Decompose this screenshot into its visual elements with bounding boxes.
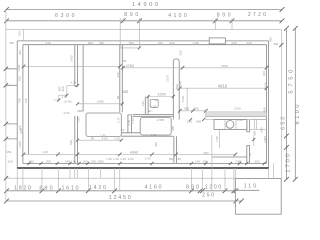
svg-text:230: 230 — [77, 117, 81, 122]
svg-text:1920: 1920 — [14, 185, 31, 191]
svg-text:240: 240 — [179, 81, 183, 86]
svg-text:1105: 1105 — [181, 95, 185, 102]
svg-text:50: 50 — [154, 98, 158, 102]
living vertical dim — [186, 88, 188, 111]
dim 2420 ticks — [76, 102, 79, 105]
door pocket near W1 — [128, 115, 131, 133]
dim line under bed — [78, 139, 122, 141]
top wall outer face — [17, 40, 268, 42]
kitchen dim line — [180, 110, 206, 112]
living dim ticks — [178, 86, 182, 90]
svg-text:1.20: 1.20 — [114, 137, 120, 141]
svg-text:650: 650 — [196, 120, 201, 124]
interior wall W1 — [120, 45, 123, 113]
svg-text:1610: 1610 — [62, 185, 79, 191]
left strip window lines — [6, 69, 17, 139]
svg-text:250: 250 — [202, 193, 214, 199]
svg-text:1.34: 1.34 — [151, 133, 157, 137]
right room dim ticks — [121, 66, 125, 70]
svg-text:1050: 1050 — [158, 93, 166, 97]
bathroom wall horizontal HW2 — [133, 115, 174, 117]
svg-text:300: 300 — [46, 159, 51, 163]
svg-text:150: 150 — [6, 150, 11, 154]
svg-text:30: 30 — [248, 153, 252, 157]
right dim outer ticks — [293, 26, 298, 31]
svg-text:500: 500 — [129, 41, 134, 45]
left wall liner line — [27, 45, 29, 155]
dim 1050 line — [148, 96, 173, 98]
right wall outer face — [268, 41, 270, 168]
interior dim 4940 line — [24, 153, 236, 155]
top wall inner face — [23, 44, 267, 46]
bathtub — [140, 117, 171, 135]
interior dim 4940 ticks — [22, 153, 26, 157]
svg-text:930: 930 — [18, 76, 22, 81]
svg-text:(35): (35) — [91, 159, 96, 163]
right wall inner face — [265, 45, 267, 164]
kitchen extension line — [211, 135, 213, 191]
svg-text:2030: 2030 — [175, 84, 179, 91]
svg-text:1.50: 1.50 — [150, 105, 156, 109]
counter right section — [250, 120, 267, 130]
right dim outer line — [294, 28, 296, 179]
dim row2 stub verticals — [123, 19, 232, 24]
svg-text:1.50: 1.50 — [215, 136, 219, 142]
bottom extensions — [17, 168, 234, 191]
svg-text:885: 885 — [171, 125, 175, 130]
svg-text:1200: 1200 — [205, 185, 222, 191]
kitchen wall segments — [247, 120, 250, 164]
svg-text:890: 890 — [217, 12, 231, 18]
svg-text:635: 635 — [231, 41, 236, 45]
svg-text:360: 360 — [88, 41, 93, 45]
svg-text:1.46: 1.46 — [120, 157, 126, 161]
dim row1 line 14900 — [7, 9, 283, 11]
svg-text:1060: 1060 — [235, 159, 242, 163]
annex rectangle — [235, 179, 281, 215]
svg-text:900: 900 — [253, 131, 257, 136]
bottom dim row1 ticks — [4, 188, 9, 193]
svg-text:780: 780 — [17, 98, 21, 103]
bottom dim row2 ticks — [4, 199, 9, 204]
door line above pocket — [122, 91, 128, 93]
svg-text:500: 500 — [263, 107, 267, 112]
svg-text:500: 500 — [260, 127, 264, 132]
boundary top line — [6, 28, 281, 30]
counter front — [214, 120, 247, 130]
annex stub extension — [235, 163, 273, 178]
svg-text:650: 650 — [169, 157, 174, 161]
boundary right tick + 450 label — [279, 43, 283, 47]
right dim inner line — [285, 28, 287, 179]
bath-kitchen wall lower — [174, 136, 177, 163]
top wall door sill — [120, 47, 139, 49]
svg-text:1.565: 1.565 — [157, 118, 165, 122]
interior wall W2 upper — [75, 45, 78, 86]
wardrobe line right of W2 — [78, 45, 84, 111]
top door extensions — [120, 18, 232, 48]
svg-text:570: 570 — [18, 31, 22, 36]
top strip tick line — [23, 29, 25, 41]
svg-text:650: 650 — [254, 159, 259, 163]
svg-text:635: 635 — [179, 50, 183, 55]
svg-text:1.20: 1.20 — [42, 150, 48, 154]
bottom wall outer face thick — [17, 167, 268, 169]
interior wall W2 lower — [75, 116, 78, 163]
svg-text:950: 950 — [61, 86, 65, 91]
left wall outer face — [16, 41, 18, 168]
washbasin — [150, 99, 158, 107]
svg-text:140: 140 — [65, 159, 70, 163]
kitchen sink circle — [226, 121, 234, 129]
left room dim line — [24, 65, 120, 67]
svg-text:150: 150 — [7, 159, 12, 163]
dim 2420 line — [78, 103, 123, 105]
svg-text:3.00: 3.00 — [45, 41, 51, 45]
bottom dim row2 line — [7, 200, 242, 202]
svg-text:250: 250 — [203, 159, 208, 163]
svg-text:650: 650 — [187, 120, 192, 124]
left wall inner face — [22, 45, 24, 164]
svg-text:1.00: 1.00 — [113, 157, 119, 161]
svg-text:4.05: 4.05 — [70, 81, 76, 85]
bathroom wall vertical — [145, 97, 148, 115]
svg-text:1.70: 1.70 — [116, 117, 120, 123]
svg-text:245: 245 — [116, 72, 120, 77]
stair niche dim steps — [53, 86, 77, 100]
svg-text:1.34: 1.34 — [131, 118, 135, 124]
svg-text:680: 680 — [193, 107, 198, 111]
svg-text:(90): (90) — [99, 41, 104, 45]
svg-text:1380: 1380 — [263, 136, 267, 143]
svg-text:450: 450 — [273, 42, 278, 46]
svg-text:2410: 2410 — [234, 106, 241, 110]
svg-text:8100: 8100 — [295, 104, 300, 125]
svg-text:500: 500 — [69, 140, 73, 145]
svg-text:890: 890 — [186, 185, 199, 191]
svg-text:1060: 1060 — [97, 159, 104, 163]
svg-text:240: 240 — [141, 101, 145, 106]
svg-text:1.35: 1.35 — [106, 157, 112, 161]
bottom wall ticks — [27, 162, 30, 165]
svg-text:1.80: 1.80 — [193, 41, 199, 45]
svg-text:4760: 4760 — [126, 64, 134, 68]
svg-text:4160: 4160 — [145, 185, 162, 191]
svg-text:450: 450 — [9, 41, 14, 45]
svg-text:680: 680 — [184, 107, 189, 111]
svg-text:60: 60 — [178, 157, 182, 161]
dim row2 ticks — [4, 18, 9, 23]
svg-text:450: 450 — [269, 37, 273, 42]
living dim line 4910 — [180, 87, 267, 89]
bed rectangle — [86, 113, 121, 136]
svg-text:250: 250 — [203, 151, 208, 155]
svg-text:3.00: 3.00 — [145, 157, 151, 161]
svg-text:200: 200 — [83, 159, 88, 163]
svg-text:1420: 1420 — [89, 185, 106, 191]
boundary left line — [5, 10, 7, 202]
svg-text:160: 160 — [24, 98, 28, 103]
right dim inner ticks — [284, 26, 289, 31]
svg-text:1.80: 1.80 — [100, 133, 106, 137]
svg-text:4760: 4760 — [221, 64, 228, 68]
dim row1 ticks — [4, 7, 9, 12]
roof vent box on top wall — [209, 38, 225, 44]
svg-text:90: 90 — [116, 96, 120, 100]
svg-text:05: 05 — [123, 59, 127, 63]
svg-text:1700: 1700 — [285, 153, 291, 173]
small dim line right room — [253, 136, 255, 146]
svg-text:240: 240 — [169, 41, 174, 45]
svg-text:4940: 4940 — [130, 151, 138, 155]
svg-text:300: 300 — [18, 125, 22, 130]
svg-text:90: 90 — [148, 109, 152, 113]
svg-text:(2.05): (2.05) — [64, 100, 72, 104]
svg-text:890: 890 — [124, 12, 138, 18]
svg-text:2170: 2170 — [166, 75, 170, 82]
interior wall HW1 — [121, 133, 173, 136]
counter back band gray — [206, 112, 267, 117]
left boundary ticks — [4, 67, 8, 71]
svg-text:300: 300 — [154, 142, 158, 147]
svg-text:2.04: 2.04 — [237, 118, 243, 122]
svg-text:890: 890 — [39, 185, 52, 191]
svg-text:4910: 4910 — [218, 83, 228, 88]
svg-text:760: 760 — [158, 41, 163, 45]
svg-text:240: 240 — [246, 41, 251, 45]
kitchen dim ticks — [178, 109, 182, 113]
kitchen vert dim — [219, 129, 221, 148]
svg-text:2410: 2410 — [70, 55, 74, 62]
right room dim line 4760 — [123, 67, 267, 69]
boundary right line — [280, 29, 282, 214]
counter band lines — [206, 111, 267, 120]
bottom wall inner face — [23, 162, 267, 164]
svg-text:0.60: 0.60 — [64, 111, 70, 115]
svg-text:1.05: 1.05 — [61, 95, 67, 99]
svg-text:90: 90 — [121, 128, 125, 132]
svg-text:140: 140 — [195, 159, 200, 163]
bottom dim row1 line — [7, 190, 236, 192]
boundary bottom line — [6, 177, 236, 179]
svg-text:1460: 1460 — [18, 141, 22, 148]
svg-text:450: 450 — [18, 50, 22, 55]
svg-text:2420: 2420 — [97, 100, 104, 104]
bottom right room line — [212, 156, 247, 158]
svg-text:635: 635 — [264, 82, 268, 87]
svg-text:1440: 1440 — [17, 64, 21, 71]
counter dividers — [225, 120, 236, 130]
svg-text:90: 90 — [91, 137, 95, 141]
svg-text:360: 360 — [262, 71, 266, 76]
svg-text:2.00: 2.00 — [128, 157, 134, 161]
svg-text:60: 60 — [73, 159, 77, 163]
svg-text:1.05: 1.05 — [122, 89, 128, 93]
svg-text:110: 110 — [244, 184, 257, 190]
left room dim ticks — [22, 65, 26, 69]
dim row2 line — [7, 20, 283, 22]
chimney U outline — [173, 59, 179, 120]
dim 1050 ticks — [147, 95, 150, 98]
